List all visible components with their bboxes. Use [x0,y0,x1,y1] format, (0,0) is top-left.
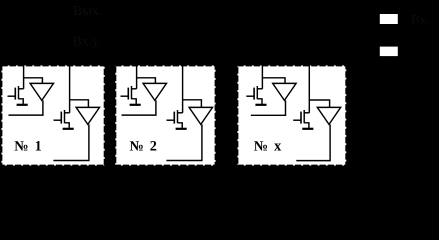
legend block: lower white rectangle [380,47,398,57]
wire: branch to amplifier input, cell 2.1 [137,78,156,84]
wire: +supply drop from top border, cell 2.2 [182,64,184,112]
board "№ x" (dashed white card) [237,65,346,165]
op-amp buffer A1.2 (triangle) [76,107,99,124]
svg-text:№ 1: № 1 [14,139,41,155]
wire: output, cell 1.2 [53,124,89,160]
transistor VT x.1 [246,86,262,104]
wire: output, cell 2.1 [122,100,156,115]
svg-text:Вх.: Вх. [411,12,429,27]
transistor VT 2.1 [121,86,137,104]
op-amp buffer A2.2 (triangle) [189,107,212,124]
transistor VT x.2 [293,110,309,128]
ground, cell x.2 [302,128,313,130]
wire: branch to amplifier input, cell 1.1 [24,78,43,84]
op-amp buffer A1.1 (triangle) [30,83,53,100]
op-amp buffer A2.1 (triangle) [143,83,166,100]
wire: branch to amplifier input, cell 2.2 [183,100,202,108]
legend block: upper white rectangle [380,14,398,24]
wire: branch to amplifier input, cell x.1 [262,78,285,84]
wire: output, cell x.1 [251,100,286,115]
wire: branch to amplifier input, cell 1.2 [70,100,89,108]
board "№ 2" (dashed white card) [115,65,215,165]
wire: output, cell x.2 [296,124,330,160]
wire: output, cell 1.1 [9,100,43,115]
svg-text:№ 2: № 2 [130,139,157,155]
op-amp buffer Ax.2 (triangle) [317,107,340,124]
transistor VT 1.2 [54,110,70,128]
ground, cell 2.2 [176,128,187,130]
wire: +supply drop from top border, cell 2.1 [136,64,138,88]
ground, cell 1.2 [63,128,74,130]
ground, cell 1.1 [17,104,28,106]
svg-text:Вх.у.: Вх.у. [73,35,102,50]
ground, cell x.1 [255,104,266,106]
wire: branch to amplifier input, cell x.2 [309,100,329,107]
wire: +supply drop from top border, cell 1.1 [23,64,25,88]
wire: output, cell 2.2 [166,124,202,160]
op-amp buffer Ax.1 (triangle) [273,83,296,100]
wire: +supply drop from top border, cell 1.2 [69,64,71,112]
wire: +supply drop from top border, cell x.2 [308,64,310,112]
transistor VT 2.2 [167,110,183,128]
svg-text:Вых.: Вых. [73,4,102,19]
transistor VT 1.1 [8,86,24,104]
ground, cell 2.1 [130,104,141,106]
svg-text:№ x: № x [254,139,282,155]
board "№ 1" (dashed white card) [1,65,104,165]
wire: +supply drop from top border, cell x.1 [261,64,263,88]
